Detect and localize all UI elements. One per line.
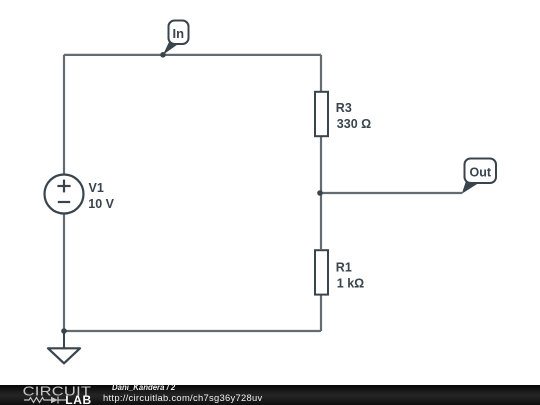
svg-text:R1: R1 xyxy=(336,261,352,275)
wire junction to R1 pin 1 xyxy=(320,193,322,249)
wire left vertical top (V1 top to corner) xyxy=(63,55,65,174)
svg-text:In: In xyxy=(173,26,185,41)
svg-text:R3: R3 xyxy=(336,101,352,115)
resistor R3 xyxy=(315,92,328,136)
node In flag xyxy=(163,21,189,55)
svg-text:10 V: 10 V xyxy=(88,197,114,211)
wire bottom horizontal xyxy=(64,330,321,332)
junction dot In node xyxy=(160,52,166,58)
svg-text:Out: Out xyxy=(470,166,492,180)
svg-text:1 kΩ: 1 kΩ xyxy=(337,277,364,291)
wire V1 bottom to ground node xyxy=(63,214,65,331)
CircuitLab logo xyxy=(0,385,100,405)
junction dot at R3/R1/Out xyxy=(317,190,323,196)
wire R1 pin 2 to bottom corner xyxy=(320,295,322,331)
wire top horizontal xyxy=(64,54,321,56)
svg-text:V1: V1 xyxy=(89,181,104,195)
svg-text:330 Ω: 330 Ω xyxy=(337,117,371,131)
wire Out horizontal xyxy=(320,192,462,194)
footer bar xyxy=(0,385,540,405)
wire right vertical (corner to R3 pin 1) xyxy=(320,55,322,92)
resistor R1 xyxy=(315,250,328,294)
wire R3 pin 2 to junction xyxy=(320,136,322,193)
voltage source V1 xyxy=(45,175,84,214)
svg-text:LAB: LAB xyxy=(65,393,91,405)
footer url line xyxy=(103,393,263,402)
footer author line xyxy=(112,384,175,393)
node Out flag xyxy=(462,159,496,194)
ground xyxy=(48,331,80,363)
junction dot at ground node xyxy=(61,328,67,334)
